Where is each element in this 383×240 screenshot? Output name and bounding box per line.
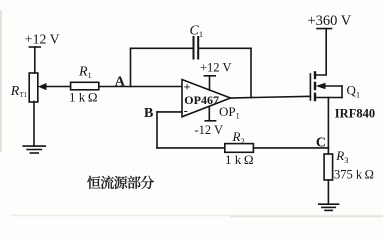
potentiometer RT1 body [29, 73, 38, 102]
potentiometer wiper arrowhead [38, 83, 47, 90]
node A feedback riser [130, 48, 132, 86]
svg-text:1 k Ω: 1 k Ω [69, 90, 98, 105]
wire inverting input (node B) [157, 111, 182, 113]
feedback riser to output [250, 48, 252, 97]
op-amp -12V pin [208, 107, 210, 121]
svg-text:OP467: OP467 [184, 93, 219, 107]
supply +12V terminal bar (left) [29, 46, 40, 48]
transistor Q1 body wire with arrow [322, 85, 342, 87]
op-amp output wire to gate [231, 96, 311, 98]
source lead down to node C [327, 98, 329, 155]
resistor R1 body [71, 82, 99, 90]
supply +360V terminal bar [317, 28, 332, 30]
wire to C1 left plate [131, 47, 194, 49]
caption Chinese: constant current source section [87, 176, 154, 189]
wire +360V to drain [316, 29, 326, 75]
wire B to R2 [157, 147, 225, 149]
svg-text:+360 V: +360 V [308, 13, 352, 29]
ground (under RT1) [23, 145, 45, 147]
scan artifact left edge [0, 10, 2, 152]
wire R3 to ground [327, 180, 329, 204]
svg-text:IRF840: IRF840 [335, 106, 375, 120]
wire C1 right plate to output riser [198, 47, 251, 49]
wire potentiometer to ground [33, 102, 35, 147]
svg-text:+: + [184, 80, 191, 94]
svg-text:375 k Ω: 375 k Ω [334, 167, 374, 181]
capacitor C1 plates [193, 37, 195, 59]
ground (under R3) [319, 203, 339, 205]
svg-text:+12 V: +12 V [200, 61, 231, 75]
wire R2 to node C [253, 147, 328, 149]
svg-text:+12 V: +12 V [25, 32, 60, 47]
svg-text:B: B [144, 106, 153, 121]
scan artifact bottom edge [10, 215, 383, 217]
resistor R2 body [225, 144, 254, 153]
resistor R3 body [324, 154, 333, 180]
node B riser down [156, 112, 158, 148]
svg-text:-12 V: -12 V [195, 123, 224, 137]
transistor Q1 gate bar [309, 74, 311, 100]
transistor Q1 source wire [315, 97, 342, 99]
op-amp +12V pin [209, 76, 211, 90]
op-amp OP1 (OP467) body [182, 80, 231, 117]
svg-text:C: C [316, 135, 326, 150]
transistor Q1 channel dashes [314, 72, 316, 78]
svg-text:A: A [115, 75, 126, 90]
svg-text:1 k Ω: 1 k Ω [225, 152, 254, 167]
wire +12V to potentiometer [34, 47, 36, 73]
wire R1 to op-amp non-inverting input (node A) [99, 86, 182, 88]
wire RT1 wiper to R1 [45, 86, 71, 88]
transistor Q1 arrowhead [316, 83, 326, 90]
